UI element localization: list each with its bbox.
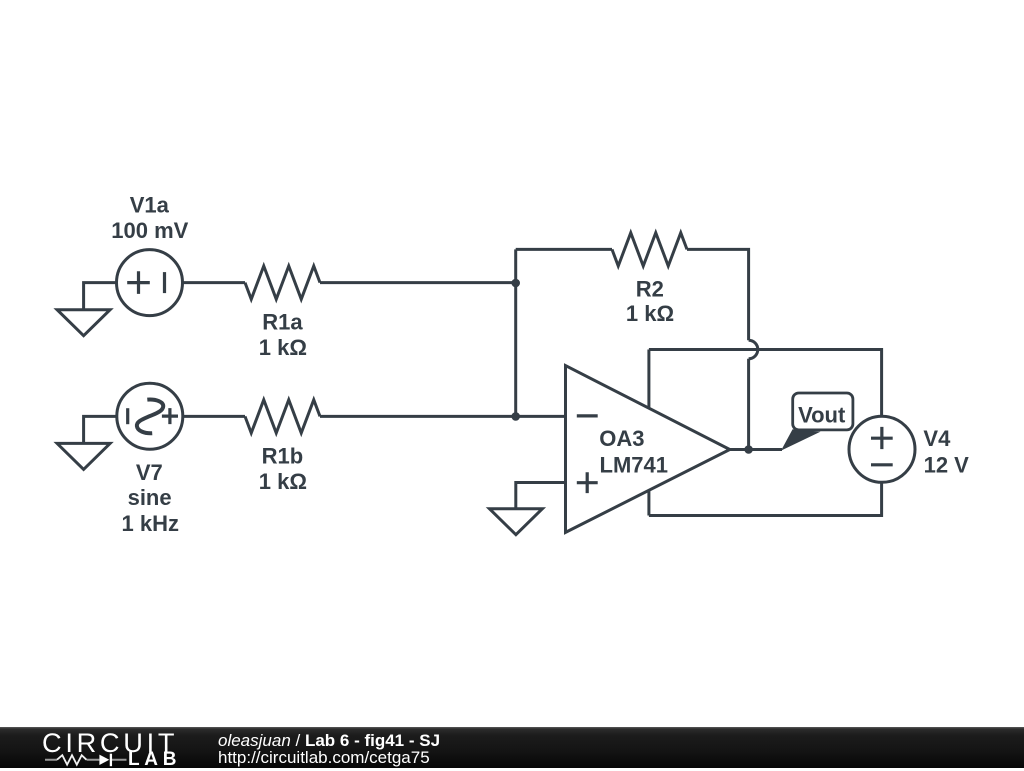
svg-text:12 V: 12 V [924, 453, 970, 478]
logo resistor-diode doodle [44, 752, 179, 770]
svg-text:R1a: R1a [262, 310, 303, 335]
wire: op-amp output [730, 448, 782, 451]
wire: V4 bottom return rail [649, 483, 882, 516]
node: summing junction at inverting input [511, 412, 520, 421]
ground (op-amp +) [489, 509, 542, 535]
svg-text:OA3: OA3 [599, 426, 644, 451]
wire: feedback down to output node [747, 359, 750, 450]
svg-text:R1b: R1b [262, 444, 304, 469]
bar url line [218, 748, 430, 768]
logo LAB text [128, 749, 181, 771]
svg-text:LM741: LM741 [600, 452, 668, 477]
node: output junction [744, 445, 753, 454]
svg-text:V1a: V1a [130, 192, 170, 217]
svg-text:V7: V7 [136, 460, 163, 485]
op-amp U1 power stub bottom [647, 490, 650, 515]
voltage source V4 [849, 416, 915, 482]
bar title line [218, 731, 440, 751]
wire: non-inverting input to ground [516, 483, 566, 509]
svg-text:R2: R2 [636, 277, 664, 302]
wire: V1a to R1a [183, 281, 245, 284]
wire: R2 to feedback corner [687, 249, 749, 340]
wire: node A vertical (summing node) [514, 249, 517, 416]
svg-text:V4: V4 [923, 426, 951, 451]
CircuitLab logo [44, 729, 178, 771]
wire: +V rail to V4 top [649, 350, 882, 416]
footer bar [0, 727, 1024, 768]
net flag Vout [781, 393, 853, 451]
op-amp U1 power stub top [647, 350, 650, 409]
resistor R2 [612, 233, 687, 266]
svg-text:sine: sine [128, 485, 172, 510]
svg-text:1 kΩ: 1 kΩ [626, 301, 674, 326]
svg-text:1 kΩ: 1 kΩ [259, 469, 307, 494]
wire: V7 left lead to ground [84, 416, 117, 443]
op-amp OA3 [566, 366, 730, 533]
wire hop: feedback over +V rail [749, 340, 758, 358]
wire: V7 to R1b [184, 415, 245, 418]
wire: top rail left to R2 [516, 248, 612, 251]
wire: R1a to node A [320, 281, 516, 284]
resistor R1a [245, 266, 320, 299]
resistor R1b [245, 400, 320, 433]
voltage source V7 (sine) [117, 383, 183, 449]
wire: V1a left lead to ground [84, 283, 117, 310]
svg-text:1 kHz: 1 kHz [122, 511, 179, 536]
node: summing junction at R1a [511, 279, 520, 288]
ground (V7) [57, 443, 110, 469]
voltage source V1a [117, 250, 183, 316]
svg-text:1 kΩ: 1 kΩ [259, 335, 307, 360]
wire: R1b to op-amp inverting input [320, 415, 566, 418]
svg-text:100 mV: 100 mV [111, 218, 188, 243]
svg-text:Vout: Vout [798, 402, 846, 427]
ground (V1a) [57, 310, 110, 336]
